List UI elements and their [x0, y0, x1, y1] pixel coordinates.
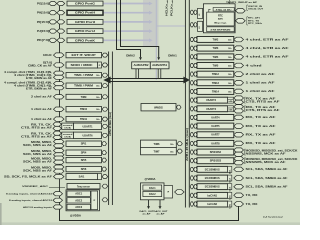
- svg-text:CMD, CK as AF: CMD, CK as AF: [28, 65, 53, 68]
- connector TIM3 pins: [234, 46, 244, 51]
- bridge AHB/APB2: [132, 62, 151, 69]
- svg-text:PCLKx: PCLKx: [170, 3, 174, 16]
- connector EXT IT. WKUP APB2: [102, 53, 108, 57]
- ADC IF sub-block: [91, 191, 98, 210]
- svg-text:4 chnl, ETR as AF: 4 chnl, ETR as AF: [246, 38, 290, 41]
- connector TIM12 APB1 a: [190, 72, 193, 76]
- svg-text:UART4: UART4: [211, 116, 220, 119]
- svg-text:RTC_TS: RTC_TS: [248, 20, 260, 22]
- timer TIM3: [197, 45, 234, 51]
- connector ADC2 inputs: [53, 198, 63, 202]
- SAI1 sub-block: [98, 174, 102, 180]
- connector USART1 pins 2: [53, 126, 62, 130]
- connector TIM11 APB2: [102, 117, 108, 121]
- svg-text:MOSI/SD, MISO/SD_ext, SCK/CK: MOSI/SD, MISO/SD_ext, SCK/CK: [246, 149, 298, 152]
- connector SDIO APB2: [102, 63, 108, 67]
- connector EXT IT. WKUP pins: [54, 53, 65, 57]
- svg-text:GPIO PortH: GPIO PortH: [75, 12, 95, 15]
- svg-text:@VDDA: @VDDA: [70, 215, 81, 218]
- svg-text:PI[15:0]: PI[15:0]: [37, 21, 49, 24]
- svg-text:USART1: USART1: [82, 125, 93, 128]
- connector USART2 APB1 b: [194, 98, 197, 102]
- svg-text:DMA1: DMA1: [168, 54, 177, 57]
- svg-text:CAN2: CAN2: [229, 203, 232, 208]
- connector UART8 APB1 a: [190, 141, 193, 145]
- svg-text:ADC3 8 analog inputs: ADC3 8 analog inputs: [23, 206, 53, 209]
- connector SPI4 pins 1: [54, 149, 65, 153]
- connector TIM8 / PWM pins 2: [54, 86, 65, 90]
- svg-text:ETR, BKIN as AF: ETR, BKIN as AF: [26, 87, 53, 90]
- temperature sensor block: [67, 184, 100, 189]
- connector TIM4 APB1 a: [190, 55, 193, 59]
- USART6 block smcard/irDA sub-block: [62, 132, 74, 138]
- svg-text:NSS/WS, MCK as AF: NSS/WS, MCK as AF: [246, 152, 287, 155]
- connector SPI6 pins 1: [54, 165, 65, 169]
- svg-text:UART8: UART8: [211, 142, 220, 145]
- svg-text:1 chnl as AF: 1 chnl as AF: [31, 118, 53, 121]
- VDDREF arrow: [49, 187, 65, 189]
- USART1 block smcard/irDA sub-block: [62, 123, 74, 129]
- svg-text:TIM7: TIM7: [154, 149, 160, 153]
- svg-text:CTS, RTS as AF: CTS, RTS as AF: [21, 127, 53, 130]
- svg-text:TX, RX: TX, RX: [246, 204, 259, 206]
- svg-text:TIM12: TIM12: [212, 73, 220, 76]
- svg-text:OSC32_IN: OSC32_IN: [248, 6, 263, 8]
- LS oscillator box 1: [198, 8, 203, 18]
- connector RTC AF pins: [236, 19, 246, 24]
- connector USART3 pins 2: [234, 109, 244, 113]
- connector SPI1 pins 1: [54, 140, 65, 144]
- TIM6 block: [141, 140, 177, 147]
- connector I2C1/SMBUS APB1 b: [194, 167, 197, 171]
- ADC1 block: [67, 191, 90, 196]
- WWDG block: [141, 104, 176, 111]
- connector SAI1 APB2: [102, 175, 108, 179]
- DMA1 wire: [121, 0, 159, 57]
- connector DAC APB1: [175, 190, 185, 195]
- svg-text:GPIO PortJ: GPIO PortJ: [75, 30, 96, 33]
- connector USART1 APB2: [102, 124, 108, 128]
- svg-text:8 analog inputs, shared ADC12: 8 analog inputs, shared ADC12: [9, 199, 53, 202]
- connector TIM3 APB1 a: [190, 46, 193, 50]
- connector temp sensor APB2: [102, 184, 108, 188]
- connector GPIO H AF: [57, 11, 65, 15]
- connector TIM3 APB1 b: [194, 46, 197, 50]
- connector I2C3/SMBUS APB1 a: [190, 185, 193, 189]
- svg-text:TIM2: TIM2: [213, 39, 219, 42]
- connector USART3 pins 1: [234, 105, 244, 109]
- connector UART7 pins: [234, 132, 244, 137]
- connector TIM14 APB1 a: [190, 89, 193, 93]
- svg-text:USART2: USART2: [206, 99, 217, 102]
- svg-text:RTC_AF1: RTC_AF1: [248, 17, 261, 20]
- connector I2C2/SMBUS APB1 b: [194, 176, 197, 180]
- connector USART6 pins 2: [53, 135, 62, 139]
- connector GPIO G pins: [49, 1, 57, 5]
- BKPSRAM block: [207, 27, 235, 32]
- USART6 block: [74, 132, 102, 138]
- timer TIM4: [197, 54, 234, 60]
- svg-text:CTS, RTS as AF: CTS, RTS as AF: [246, 109, 281, 112]
- svg-text:as AF: as AF: [143, 212, 152, 215]
- connector TIM2 APB1 b: [194, 37, 197, 41]
- SDIO / MMC block: [66, 62, 98, 68]
- svg-text:GPIO PortG: GPIO PortG: [75, 3, 95, 6]
- connector UART8 pins: [234, 141, 244, 146]
- connector UART5 pins: [234, 124, 244, 129]
- bus matrix edge line: [155, 0, 157, 80]
- connector USART2 pins 1: [234, 96, 244, 100]
- svg-text:168 AF: 168 AF: [43, 54, 53, 57]
- svg-text:RTC_50Hz: RTC_50Hz: [248, 23, 262, 25]
- connector TIM13 APB1 b: [194, 81, 197, 85]
- connector SAI1 pins: [54, 174, 65, 178]
- connector SPI3/I2S3 APB1 a: [190, 159, 193, 163]
- USART1 block: [74, 123, 102, 129]
- svg-text:TIM1 / PWM: TIM1 / PWM: [74, 74, 93, 77]
- svg-text:SDIO / MMC: SDIO / MMC: [71, 64, 93, 67]
- svg-text:as AF: as AF: [157, 212, 166, 215]
- timer TIM14: [197, 89, 234, 95]
- svg-text:CTS, RTS as AF: CTS, RTS as AF: [21, 136, 53, 139]
- svg-text:SCK, NSS as AF: SCK, NSS as AF: [23, 144, 53, 147]
- connector TIM7 APB1: [177, 149, 182, 153]
- svg-text:4 chnl: 4 chnl: [246, 64, 263, 67]
- connector bxCAN1 APB1 a: [190, 193, 193, 197]
- svg-text:bxCAN2: bxCAN2: [207, 203, 217, 206]
- svg-text:GPIO PortI: GPIO PortI: [75, 21, 95, 24]
- connector I2C1/SMBUS pins: [234, 167, 244, 172]
- timer TIM11: [66, 116, 102, 121]
- timer TIM2: [197, 37, 234, 43]
- connector TIM14 APB1 b: [194, 89, 197, 93]
- connector TIM5 APB1 b: [194, 63, 197, 67]
- svg-text:DAC1: DAC1: [149, 187, 156, 190]
- svg-text:PH[15:0]: PH[15:0]: [37, 12, 49, 15]
- svg-text:@VDDA: @VDDA: [145, 178, 156, 181]
- connector TIM13 pins: [234, 81, 244, 86]
- svg-text:PG[15:0]: PG[15:0]: [37, 2, 49, 5]
- connector bxCAN1 APB1 b: [194, 193, 197, 197]
- svg-text:SCL, SDA, SMBA as AF: SCL, SDA, SMBA as AF: [246, 186, 289, 189]
- connector I2C3/SMBUS APB1 b: [194, 185, 197, 189]
- connector WWDG APB1: [176, 105, 181, 109]
- connector TIM1 / PWM pins 2: [54, 75, 65, 79]
- svg-text:2 chnl as AF: 2 chnl as AF: [31, 96, 53, 99]
- spi SPI3/I2S3: [197, 158, 234, 164]
- svg-text:SPI5: SPI5: [81, 158, 87, 162]
- can bxCAN2: [197, 201, 228, 207]
- RTC domain outer box: [203, 4, 235, 33]
- SAI1 block: [66, 174, 98, 180]
- svg-text:D[7:0]: D[7:0]: [43, 63, 52, 65]
- connector USART3 APB1 a: [190, 107, 193, 111]
- connector RTC LS1 APB1 a: [190, 10, 193, 14]
- connector SPI2/I2S2 APB1 a: [190, 150, 193, 154]
- connector SPI5 pins 2: [54, 160, 65, 164]
- connector I2C2/SMBUS pins: [234, 176, 244, 181]
- connector TIM4 pins: [234, 55, 244, 60]
- svg-text:SD, SCK, FS, MCLK as AF: SD, SCK, FS, MCLK as AF: [4, 175, 53, 178]
- connector USART6 APB2: [102, 133, 108, 137]
- connector TIM4 APB1 b: [194, 55, 197, 59]
- DAC IF sub-block: [164, 186, 173, 199]
- svg-text:MOSI, MISO,: MOSI, MISO,: [31, 158, 53, 160]
- svg-text:TIM6: TIM6: [154, 142, 160, 146]
- connector TIM11 pins: [54, 117, 65, 121]
- connector SPI3/I2S3 pins 2: [234, 161, 244, 165]
- APB2 bus (left column): [108, 52, 110, 206]
- GPIO port K: [67, 38, 103, 43]
- connector UART8 APB1 b: [194, 141, 197, 145]
- svg-text:MOSI, MISO,: MOSI, MISO,: [31, 151, 53, 153]
- svg-text:ETR, BKIN as AF: ETR, BKIN as AF: [26, 77, 53, 80]
- connector TIM5 pins: [234, 63, 244, 68]
- connector SPI4 APB2: [102, 151, 107, 155]
- svg-text:TIM4: TIM4: [213, 56, 219, 59]
- svg-text:8 analog inputs, shared ADC123: 8 analog inputs, shared ADC123: [6, 193, 53, 196]
- svg-text:bxCAN1: bxCAN1: [207, 194, 217, 197]
- connector SPI3/I2S3 APB1 b: [194, 159, 197, 163]
- connector UART5 APB1 a: [190, 124, 193, 128]
- svg-text:DAC1_OUT: DAC1_OUT: [140, 210, 155, 213]
- svg-text:SCL, SDA, SMBA as AF: SCL, SDA, SMBA as AF: [246, 177, 289, 180]
- bus-matrix gray band: [143, 0, 159, 47]
- connector TIM9 APB2: [102, 95, 108, 99]
- svg-text:I2C2/SMBUS: I2C2/SMBUS: [205, 177, 220, 180]
- ADC3 block: [67, 204, 90, 209]
- XTAL to RTC wire: [209, 9, 211, 12]
- connector I2C1/SMBUS APB1 a: [190, 167, 193, 171]
- timer TIM8: [66, 83, 102, 88]
- svg-text:TIM14: TIM14: [212, 90, 220, 93]
- connector TIM1 / PWM APB2: [102, 73, 108, 77]
- svg-text:TAMP1_WKUP as AF: TAMP1_WKUP as AF: [226, 1, 258, 4]
- connector GPIO H pins: [49, 11, 57, 15]
- connector SPI2/I2S2 APB1 b: [194, 150, 197, 154]
- timer TIM13: [197, 80, 234, 86]
- connector SPI6 APB2: [102, 167, 107, 171]
- bottom routing wire: [60, 206, 239, 221]
- svg-text:RX, TX as AF: RX, TX as AF: [246, 116, 277, 119]
- svg-text:UART5: UART5: [211, 125, 220, 128]
- i2c I2C1/SMBUS: [197, 166, 228, 172]
- svg-text:PK[7:0]: PK[7:0]: [37, 39, 49, 42]
- svg-text:Temp sensor: Temp sensor: [77, 186, 90, 189]
- svg-text:SCL, SDA, SMBA as AF: SCL, SDA, SMBA as AF: [246, 168, 289, 171]
- svg-text:EXT IT. WKUP: EXT IT. WKUP: [72, 54, 96, 57]
- svg-text:RX, TX, CK,: RX, TX, CK,: [31, 134, 53, 136]
- svg-text:APB2 90 MHz (max): APB2 90 MHz (max): [109, 112, 112, 136]
- svg-text:OSC32_OUT: OSC32_OUT: [248, 9, 264, 11]
- connector TIM13 APB1 a: [190, 81, 193, 85]
- svg-text:4 chnl (TIM1_CH[1:4]),: 4 chnl (TIM1_CH[1:4]),: [14, 74, 53, 77]
- svg-text:RX, TX as AF: RX, TX as AF: [246, 106, 277, 109]
- svg-text:TIM9: TIM9: [81, 96, 87, 99]
- connector TIM6 APB1: [177, 142, 182, 146]
- svg-text:SPI4: SPI4: [81, 151, 87, 155]
- connector bxCAN2 APB1 b: [194, 202, 197, 206]
- svg-text:4 chnl (TIM8_CH[1:4]),: 4 chnl (TIM8_CH[1:4]),: [14, 85, 53, 88]
- svg-text:CTS, RTS as AF: CTS, RTS as AF: [246, 100, 281, 103]
- DAC1 block: [143, 185, 162, 190]
- svg-text:SAI1: SAI1: [79, 175, 85, 179]
- connector USART2 APB1 a: [190, 98, 193, 102]
- AHB1 GPIO bus arrows (light): [104, 3, 150, 5]
- connector SPI1 APB2: [102, 142, 107, 146]
- svg-text:SPI2/I2S2: SPI2/I2S2: [210, 151, 222, 154]
- GPIO port G: [67, 1, 103, 6]
- connector USART6 pins 1: [53, 131, 62, 135]
- GPIO port I: [67, 20, 103, 25]
- svg-text:1 chnl as AF: 1 chnl as AF: [246, 90, 276, 93]
- svg-text:AHB/APB1: AHB/APB1: [152, 64, 168, 67]
- svg-text:MOSI, MISO,: MOSI, MISO,: [31, 142, 53, 144]
- connector GPIO I AF: [57, 20, 65, 24]
- svg-text:1 chnl as AF: 1 chnl as AF: [246, 82, 276, 85]
- svg-text:VDDREF_ADC: VDDREF_ADC: [22, 185, 49, 188]
- spi SPI2/I2S2: [197, 149, 234, 155]
- connector USART3 APB1 b: [194, 107, 197, 111]
- svg-text:MOSI, MISO,: MOSI, MISO,: [31, 167, 53, 169]
- connector USART1 pins 1: [53, 122, 62, 126]
- uart UART4: [197, 115, 234, 121]
- svg-text:ADC1: ADC1: [75, 193, 82, 196]
- svg-text:APB1 45 MHz (max): APB1 45 MHz (max): [186, 128, 189, 161]
- svg-text:SPI1: SPI1: [81, 142, 87, 146]
- connector SPI5 APB2: [102, 158, 107, 162]
- svg-text:TX, RX: TX, RX: [246, 195, 259, 197]
- svg-text:MS3042: MS3042: [263, 215, 284, 219]
- ADC2 block: [67, 198, 90, 203]
- connector UART4 APB1 a: [190, 115, 193, 119]
- connector TIM12 APB1 b: [194, 72, 197, 76]
- DAC2 block: [143, 191, 162, 196]
- connector bxCAN2 pins: [234, 202, 244, 207]
- i2c I2C3/SMBUS: [197, 184, 228, 190]
- APB1 bus (right column): [184, 0, 186, 208]
- SPI4 block: [66, 150, 102, 155]
- connector bxCAN1 pins: [234, 193, 244, 198]
- timer TIM1: [66, 73, 102, 78]
- connector RTC LS2 APB1 a: [190, 23, 193, 27]
- svg-text:TIM13: TIM13: [212, 82, 220, 85]
- connector I2C3/SMBUS pins: [234, 184, 244, 189]
- connector GPIO K AF: [57, 38, 65, 42]
- svg-text:RX, TX as AF: RX, TX as AF: [246, 98, 277, 101]
- svg-text:RX, TX as AF: RX, TX as AF: [246, 142, 277, 145]
- svg-text:RX, TX, CK,: RX, TX, CK,: [31, 125, 53, 127]
- svg-text:PJ[15:0]: PJ[15:0]: [37, 30, 49, 33]
- connector SPI2/I2S2 pins 2: [234, 152, 244, 156]
- usart USART2: [197, 97, 228, 103]
- connector I2C2/SMBUS APB1 a: [190, 176, 193, 180]
- svg-text:AHB/APB2: AHB/APB2: [134, 64, 150, 67]
- svg-text:TIM11: TIM11: [80, 118, 88, 121]
- bridge stubs: [135, 69, 137, 79]
- uart UART5: [197, 123, 234, 129]
- svg-text:irDA: irDA: [64, 127, 72, 130]
- connector SPI3/I2S3 pins 1: [234, 157, 244, 161]
- connector UART4 pins: [234, 115, 244, 120]
- connector TIM12 pins: [234, 72, 244, 77]
- connector RTC LS2 APB1 b: [194, 23, 197, 27]
- svg-text:TIM10: TIM10: [80, 108, 88, 111]
- connector UART4 APB1 b: [194, 115, 197, 119]
- connector SDIO pins: [54, 63, 65, 67]
- svg-text:DAC2_OUT: DAC2_OUT: [154, 210, 169, 213]
- DAC output arrows: [148, 200, 150, 207]
- connector USART2 pins 2: [234, 100, 244, 104]
- svg-text:1 chnl as AF: 1 chnl as AF: [31, 108, 53, 111]
- svg-text:4 compl. chnl (TIM8_CH[1:4]N,: 4 compl. chnl (TIM8_CH[1:4]N,: [4, 82, 52, 85]
- svg-text:XTAL 32 kHz: XTAL 32 kHz: [216, 8, 232, 11]
- timer TIM9: [66, 94, 102, 99]
- connector TIM10 pins: [54, 107, 65, 111]
- connector ADC1 inputs: [53, 192, 63, 196]
- svg-text:2 chnl as AF: 2 chnl as AF: [246, 73, 276, 76]
- connector SPI2/I2S2 pins 1: [234, 148, 244, 152]
- can bxCAN1: [197, 192, 228, 198]
- timer TIM5: [197, 63, 234, 69]
- svg-text:UART7: UART7: [211, 134, 220, 137]
- svg-text:USART6: USART6: [82, 134, 93, 137]
- connector TIM8 / PWM pins 1: [54, 82, 65, 86]
- SPI5 block: [66, 157, 102, 162]
- svg-text:RTC: RTC: [218, 14, 223, 17]
- TIM7 block: [141, 147, 177, 154]
- svg-text:USART3: USART3: [206, 108, 217, 111]
- svg-text:GPIO PortK: GPIO PortK: [75, 39, 95, 42]
- svg-text:WWDG: WWDG: [154, 106, 163, 110]
- timer TIM10: [66, 107, 102, 112]
- connector SPI6 pins 2: [54, 169, 65, 173]
- connector SPI4 pins 2: [54, 153, 65, 157]
- bottom edge shading: [0, 222, 300, 225]
- connector ADC3 inputs: [53, 205, 63, 209]
- connector OSC32 pins: [236, 8, 246, 13]
- svg-text:AWU: AWU: [218, 18, 224, 21]
- svg-text:ADC2: ADC2: [75, 199, 82, 202]
- svg-text:NSS/WS, MCK as AF: NSS/WS, MCK as AF: [246, 161, 287, 164]
- svg-text:4 chnl, ETR as AF: 4 chnl, ETR as AF: [246, 56, 290, 59]
- connector TIM2 APB1 a: [190, 37, 193, 41]
- GPIO port H: [67, 10, 103, 15]
- AF net vertical line: [59, 2, 61, 207]
- connector UART5 APB1 b: [194, 124, 197, 128]
- timer TIM12: [197, 71, 234, 77]
- usart USART3: [197, 106, 228, 112]
- svg-text:SCK, NSS as AF: SCK, NSS as AF: [23, 153, 53, 156]
- i2c I2C2/SMBUS: [197, 175, 228, 181]
- connector RTC LS1 APB1 b: [194, 10, 197, 14]
- svg-text:TIM5: TIM5: [213, 65, 219, 68]
- EXTI wakeup block: [66, 52, 102, 57]
- svg-text:DAC2: DAC2: [149, 193, 156, 196]
- svg-text:4 chnl, ETR as AF: 4 chnl, ETR as AF: [246, 47, 290, 50]
- connector UART7 APB1 a: [190, 133, 193, 137]
- APB main arrow from bridges: [110, 78, 187, 80]
- uart UART7: [197, 132, 234, 138]
- svg-text:SPI6: SPI6: [81, 167, 87, 171]
- uart UART8: [197, 140, 234, 146]
- svg-text:SCK, NSS as AF: SCK, NSS as AF: [23, 170, 53, 173]
- connector UART7 APB1 b: [194, 133, 197, 137]
- connector ADC APB2: [102, 198, 108, 202]
- connector GPIO J pins: [49, 29, 57, 33]
- connector SPI5 pins 1: [54, 156, 65, 160]
- svg-text:TIM3: TIM3: [213, 47, 219, 50]
